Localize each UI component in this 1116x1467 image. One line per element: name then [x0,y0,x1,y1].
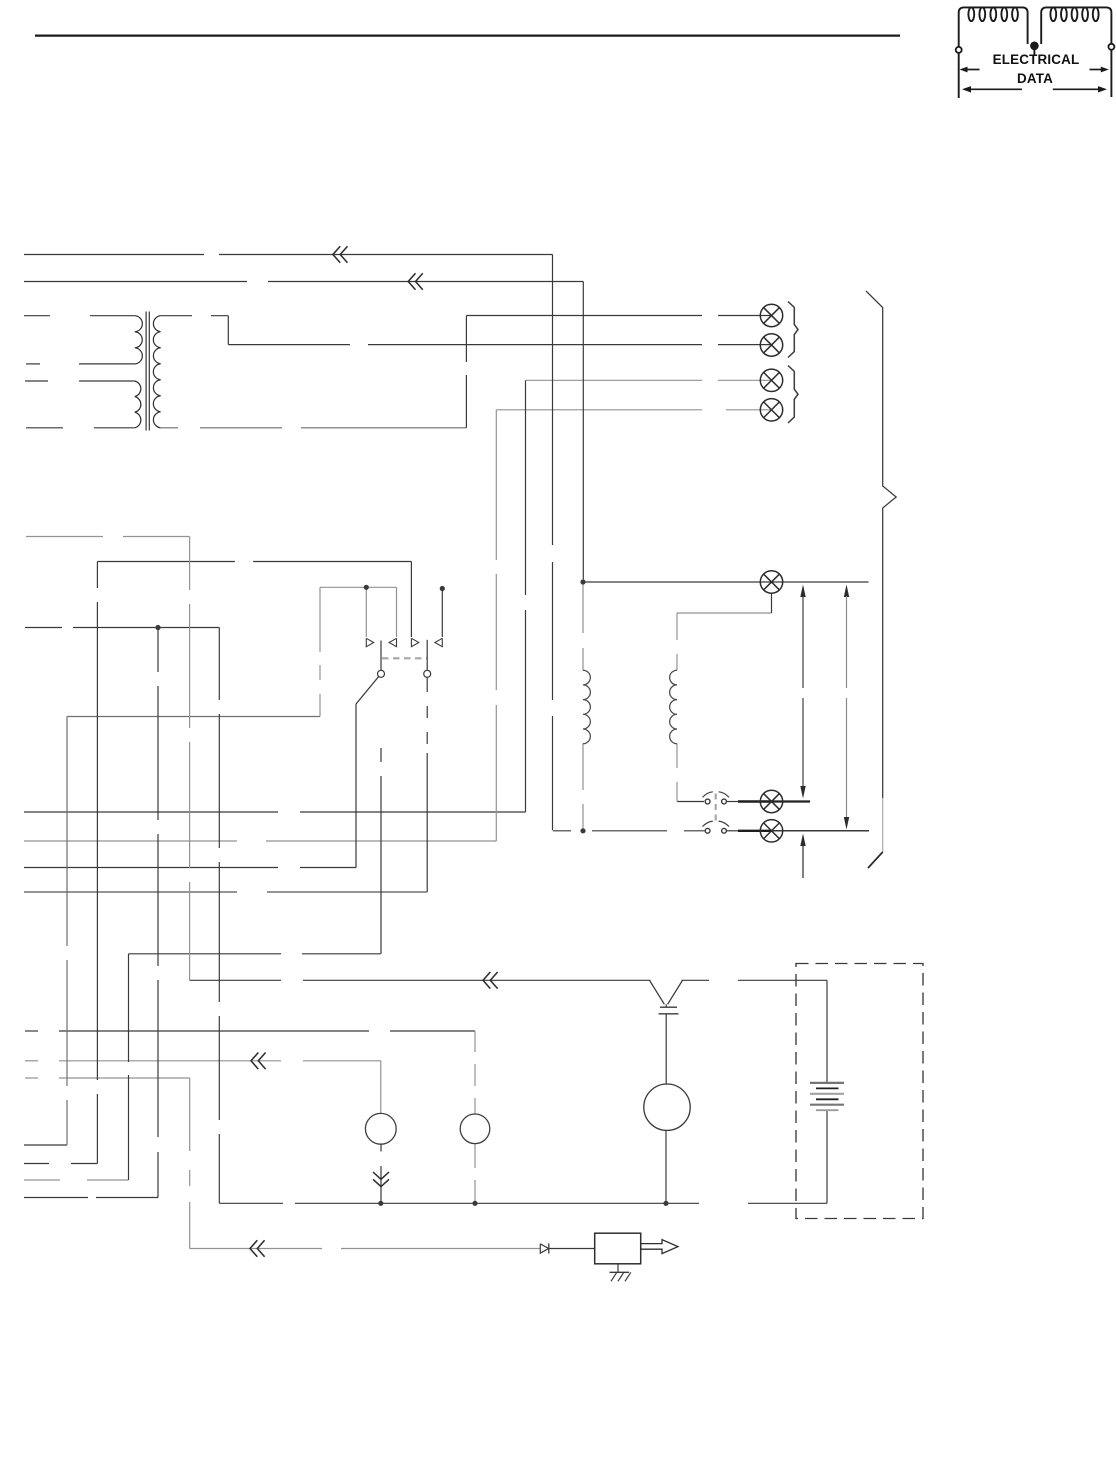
svg-text:DATA: DATA [1017,71,1053,86]
svg-text:ELECTRICAL: ELECTRICAL [993,52,1080,67]
